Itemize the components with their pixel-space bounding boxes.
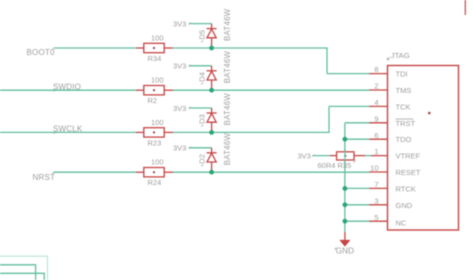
wire RTCK xyxy=(345,187,370,189)
svg-text:BAT46W: BAT46W xyxy=(223,132,232,165)
wire 3V3 to D3 cathode xyxy=(190,107,212,109)
wire R24 to pin RESET xyxy=(173,171,370,173)
wire 3V3 to D2 cathode xyxy=(190,147,212,149)
resistor R23 xyxy=(136,118,173,147)
power 3V3 (row2) xyxy=(173,62,191,71)
net label SWCLK xyxy=(53,125,83,134)
svg-text:R2: R2 xyxy=(148,96,158,105)
svg-text:5: 5 xyxy=(374,213,378,222)
diode D3 xyxy=(198,93,233,131)
wire R2 to pin TMS xyxy=(173,89,370,91)
svg-text:3V3: 3V3 xyxy=(298,152,311,161)
junction D4/SWDIO xyxy=(209,88,214,93)
pin 2 TMS xyxy=(369,82,411,95)
svg-text:D4: D4 xyxy=(198,72,207,82)
svg-text:10: 10 xyxy=(370,164,378,173)
junction GND xyxy=(343,202,348,207)
junction D3/SWCLK xyxy=(209,130,214,135)
wire 3V3 to D4 cathode xyxy=(190,65,212,67)
diode D2 xyxy=(198,132,233,170)
svg-text:R23: R23 xyxy=(148,138,162,147)
svg-text:3V3: 3V3 xyxy=(173,62,186,71)
net label NRST xyxy=(33,172,56,182)
connector JTAG xyxy=(387,51,458,230)
svg-text:BAT46W: BAT46W xyxy=(223,8,232,41)
svg-text:BAT46W: BAT46W xyxy=(223,50,232,83)
svg-text:GND: GND xyxy=(396,201,413,210)
wire R23 to corner xyxy=(173,131,330,133)
resistor R34 xyxy=(136,34,173,64)
resistor R35 60R4 xyxy=(318,152,366,170)
svg-text:9: 9 xyxy=(374,114,378,123)
svg-text:RESET: RESET xyxy=(396,168,421,177)
power 3V3 (row3) xyxy=(173,104,191,113)
svg-text:3: 3 xyxy=(374,196,378,205)
power 3V3 (row1) xyxy=(173,20,191,29)
svg-text:TMS: TMS xyxy=(396,86,412,95)
junction RTCK xyxy=(343,186,348,191)
svg-text:100: 100 xyxy=(151,34,164,43)
svg-text:100: 100 xyxy=(151,158,164,167)
junction D2/NRST xyxy=(209,170,214,175)
svg-text:1: 1 xyxy=(374,147,378,156)
wire GND pin xyxy=(345,204,370,206)
svg-text:R34: R34 xyxy=(148,54,162,63)
wire NRST to R24 xyxy=(54,171,137,173)
power 3V3 (row4) xyxy=(173,144,191,153)
diode D4 xyxy=(198,50,233,88)
svg-text:4: 4 xyxy=(374,98,378,107)
wire 3V3 to D5 cathode xyxy=(190,23,212,25)
diode D5 xyxy=(198,8,233,46)
red fragment top right xyxy=(464,0,466,15)
wire to pin TDI xyxy=(327,73,370,75)
svg-text:3V3: 3V3 xyxy=(173,104,186,113)
wire NC xyxy=(345,220,370,222)
svg-text:TCK: TCK xyxy=(396,102,411,111)
svg-text:D2: D2 xyxy=(198,154,207,164)
svg-text:RTCK: RTCK xyxy=(396,184,416,193)
svg-text:60R4 R35: 60R4 R35 xyxy=(318,161,352,170)
wire SWCLK to R23 xyxy=(0,131,136,133)
svg-text:JTAG: JTAG xyxy=(391,51,410,60)
wire TDO xyxy=(345,138,370,140)
svg-text:NRST: NRST xyxy=(33,173,56,182)
wire BOOT0 vertical drop to TDI xyxy=(326,48,328,74)
svg-text:R24: R24 xyxy=(148,178,162,187)
wire ground bus over resistor xyxy=(344,148,346,163)
svg-text:6: 6 xyxy=(374,131,378,140)
svg-text:D3: D3 xyxy=(198,114,207,124)
svg-text:TDO: TDO xyxy=(396,135,412,144)
pin 3 GND xyxy=(369,196,412,209)
wire bottom-left faint xyxy=(0,256,48,280)
wire R35 to VTREF pin xyxy=(365,155,372,157)
wire SWCLK vertical rise to TCK xyxy=(328,106,330,132)
svg-text:GND: GND xyxy=(336,246,354,255)
pin 1 VTREF xyxy=(371,147,420,160)
net label BOOT0 xyxy=(27,48,55,57)
pin 7 RTCK xyxy=(369,180,415,193)
pin 6 TDO xyxy=(369,131,411,144)
wire SWDIO to R2 xyxy=(0,89,136,91)
pin 9 TRST xyxy=(369,114,415,127)
power 3V3 (VTREF) xyxy=(298,152,315,161)
wire bottom-left outer xyxy=(0,265,36,280)
svg-text:TRST: TRST xyxy=(396,119,416,128)
svg-text:BAT46W: BAT46W xyxy=(223,93,232,126)
junction D5/BOOT0 xyxy=(209,46,214,51)
svg-text:VTREF: VTREF xyxy=(396,152,421,161)
svg-text:TDI: TDI xyxy=(396,70,408,79)
wire R34 to D5 junction xyxy=(173,47,328,49)
svg-text:8: 8 xyxy=(374,65,378,74)
svg-text:3V3: 3V3 xyxy=(173,144,186,153)
wire to pin TCK xyxy=(329,105,370,107)
svg-text:NC: NC xyxy=(396,219,407,228)
wire bottom-left inner xyxy=(0,273,44,280)
pin 10 RESET xyxy=(369,164,421,177)
net label SWDIO xyxy=(53,82,81,91)
wire ground bus vertical xyxy=(344,123,346,232)
svg-text:BOOT0: BOOT0 xyxy=(27,48,55,57)
resistor R2 xyxy=(136,76,173,106)
ground xyxy=(335,232,355,255)
svg-text:3V3: 3V3 xyxy=(173,20,186,29)
wire TRST to ground bus xyxy=(345,122,370,124)
wire 3V3 to R35 xyxy=(313,155,331,157)
wire BOOT0 to R34 xyxy=(55,47,137,49)
svg-text:2: 2 xyxy=(374,82,378,91)
svg-text:D5: D5 xyxy=(198,30,207,40)
pin 4 TCK xyxy=(369,98,410,111)
resistor R24 xyxy=(136,158,173,188)
pin 8 TDI xyxy=(369,65,407,78)
svg-text:100: 100 xyxy=(151,118,164,127)
junction TDO xyxy=(343,137,348,142)
junction NC xyxy=(343,219,348,224)
pin 5 NC xyxy=(369,213,407,228)
svg-text:7: 7 xyxy=(374,180,378,189)
svg-text:100: 100 xyxy=(151,76,164,85)
